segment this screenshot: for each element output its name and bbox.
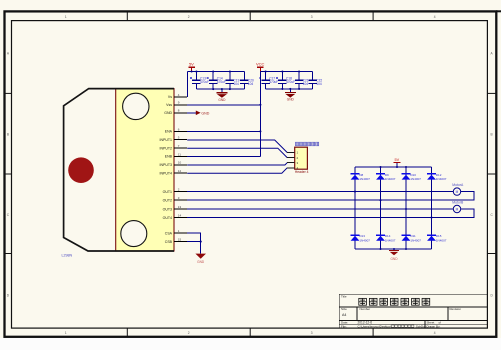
diode D13 1N4007 (bottom row) [351,234,371,242]
svg-text:Size: Size [341,307,347,311]
power port GND at pin 8 (arrow style) [187,111,210,116]
diode D11 1N4007 (bottom row) [402,234,422,242]
svg-text:INPUT4: INPUT4 [160,171,173,175]
junction dots bank1 [191,70,231,90]
wire Vss to VCC [187,104,260,106]
capacitor C21 104 [295,72,309,89]
junction VCC/Vss [259,104,261,106]
pin 14 OUT4 [163,213,188,219]
diode D9 1N4007 (top row) [376,173,396,181]
wire diode top rail to 5V [355,166,432,168]
svg-text:B: B [491,132,493,136]
pin 10 INPUT3 [160,161,188,167]
junction OUT1/diode column 1 [354,191,356,193]
diode D10 1N4007 (top row) [402,173,422,181]
svg-text:GND: GND [390,257,398,261]
wire CSA to ground [187,233,201,254]
diode D14 1N4007 (bottom row) [376,234,396,242]
svg-text:ENB: ENB [165,155,173,159]
svg-text:4: 4 [434,331,436,335]
pin 9 Vss [166,101,187,107]
svg-text:L298N: L298N [62,253,73,257]
svg-text:15: 15 [178,238,182,242]
capacitor C17 470uF [259,72,278,89]
svg-text:M: M [456,207,459,211]
svg-text:Title: Title [341,295,347,299]
junction OUT2/diode column 2 [379,199,381,201]
junction OUT3/diode column 3 [405,208,407,210]
svg-text:CSB: CSB [165,240,173,244]
svg-text:GND: GND [164,111,172,115]
capacitor C13 470uF [190,72,209,90]
wires diode verticals [355,167,432,249]
pin 3 OUT2 [163,196,188,202]
wire INPUT3 to header pin 3 [187,163,287,165]
pin 12 INPUT4 [160,169,188,175]
svg-text:104: 104 [234,82,240,86]
wire ENA to VCC [187,130,260,132]
svg-text:MotorB: MotorB [452,200,464,204]
ground symbol diode rail GND [389,249,399,261]
wire VCC top rail [260,71,312,73]
svg-text:1N4007: 1N4007 [385,238,396,242]
pin 1 CSA [165,229,187,235]
svg-text:3: 3 [311,15,313,19]
junction VCC/ENA [259,130,261,132]
wire OUT1 to MotorA left [187,191,453,193]
wire bank1 bottom rail [196,88,244,90]
svg-text:OUT4: OUT4 [163,216,172,220]
svg-text:5V: 5V [189,62,194,67]
svg-text:2: 2 [188,15,190,19]
wire ENB to VCC [187,155,260,157]
wire Vs pin to 5V rail [186,72,188,97]
svg-text:MotorA: MotorA [452,183,464,187]
svg-text:.SchDoc: .SchDoc [415,324,427,328]
capacitor C22 104 [309,72,323,89]
svg-text:2: 2 [188,331,190,335]
svg-text:4: 4 [434,15,436,19]
wire 5V top rail [187,71,244,73]
svg-text:Revision: Revision [450,307,462,311]
svg-text:470uF: 470uF [269,80,278,84]
svg-text:INPUT1: INPUT1 [160,138,173,142]
connector P1 Header 4 (驱动输入信号) [287,147,307,170]
svg-text:GND: GND [218,98,226,102]
wire OUT3 to MotorB left [187,208,453,210]
wire INPUT4 to header pin 4 [187,168,287,173]
svg-text:Vs: Vs [168,95,172,99]
svg-text:GND: GND [287,98,295,102]
title block [339,294,487,328]
capacitor C19 104 [226,72,240,90]
svg-text:470uF: 470uF [217,80,226,84]
wire INPUT1 to header pin 1 [187,140,287,153]
svg-text:INPUT2: INPUT2 [160,146,173,150]
svg-text:3: 3 [311,331,313,335]
power port GND at CSA/CSB (arrow style) [195,254,206,264]
pin 13 OUT3 [163,205,188,211]
svg-text:VCC: VCC [256,62,265,67]
svg-text:C:\Users\lenovo\Desktop\: C:\Users\lenovo\Desktop\ [358,324,392,328]
capacitor C14 470uF [207,72,226,90]
svg-text:GND: GND [201,111,209,115]
svg-text:470uF: 470uF [200,80,209,84]
diode D8 1N4007 (top row) [351,173,371,181]
svg-text:14: 14 [178,213,182,217]
pin 4 Vs [168,93,187,99]
svg-text:11: 11 [178,152,181,156]
file path text [358,324,427,328]
ground symbol bank1 GND [216,89,227,102]
pin 11 ENB [165,152,187,158]
wire OUT2 to MotorA right (loop) [187,192,474,201]
power port VCC [256,62,265,72]
svg-text:Drawn By:: Drawn By: [427,324,441,328]
svg-text:OUT3: OUT3 [163,207,172,211]
power port 5V (diode rail) [394,158,401,167]
svg-text:ENA: ENA [165,130,173,134]
svg-text:M: M [456,190,459,194]
svg-text:104: 104 [248,82,254,86]
svg-text:B: B [7,132,9,136]
ground symbol bank2 GND [285,89,296,102]
svg-text:1N4007: 1N4007 [385,177,396,181]
wire VCC vertical to Vss/ENA/ENB [259,72,261,157]
wire CSB to ground [187,241,201,243]
motor connector MotorB [452,200,464,212]
pin 7 INPUT2 [160,144,188,150]
pin 6 ENA [165,127,187,133]
svg-text:12: 12 [178,169,182,173]
power port 5V (capacitor bank) [188,62,194,72]
svg-text:GND: GND [197,260,205,264]
wire OUT4 to MotorB right (loop) [187,209,474,218]
title text 双电机驱动电路 (CJK glyph blocks) [359,298,430,305]
wire bank2 bottom rail [266,88,313,90]
svg-text:File:: File: [341,324,347,328]
svg-text:1N4007: 1N4007 [410,238,421,242]
label 驱动输入信号 (CJK glyph blocks) [295,142,318,146]
junctions diode rails [379,166,407,250]
svg-text:OUT2: OUT2 [163,199,172,203]
svg-text:A4: A4 [342,313,346,317]
IC L298N (Multiwatt-15 dual H-bridge driver) body [64,89,174,251]
motor connector MotorA [452,183,464,195]
pin 8 GND [164,109,187,115]
svg-text:1N4007: 1N4007 [359,177,370,181]
pin 2 OUT1 [163,188,188,194]
svg-text:470uF: 470uF [286,80,295,84]
pin 5 INPUT1 [160,136,188,142]
junction dots bank2 [265,70,301,90]
diode D12 1N4007 (top row) [427,173,447,181]
svg-text:CSA: CSA [165,231,173,235]
wire diode bottom rail [355,248,432,250]
capacitor C20 104 [240,72,254,90]
svg-text:1N4007: 1N4007 [359,238,370,242]
svg-text:1N4007: 1N4007 [410,177,421,181]
svg-text:10: 10 [178,161,182,165]
wire INPUT2 to header pin 2 [187,148,287,157]
junction OUT4/diode column 4 [430,216,432,218]
capacitor C18 470uF [276,72,295,89]
svg-text:104: 104 [303,82,309,86]
svg-text:1N4007: 1N4007 [436,238,447,242]
svg-text:Number: Number [360,307,371,311]
svg-text:5V: 5V [394,158,399,162]
svg-text:Header 4: Header 4 [295,170,309,174]
svg-text:OUT1: OUT1 [163,190,172,194]
svg-text:13: 13 [178,205,182,209]
svg-text:104: 104 [316,82,322,86]
junction CSA/CSB [200,241,202,243]
svg-text:1N4007: 1N4007 [436,177,447,181]
svg-text:Vss: Vss [166,103,172,107]
svg-text:INPUT3: INPUT3 [160,163,173,167]
svg-text:1: 1 [65,15,67,19]
pin 15 CSB [165,238,187,244]
svg-text:1: 1 [65,331,67,335]
diode D15 1N4007 (bottom row) [427,234,447,242]
